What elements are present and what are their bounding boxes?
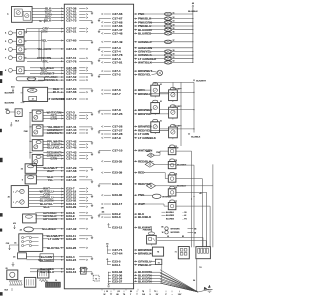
svg-text:→ PO: → PO [182,218,187,220]
svg-text:LT GRN/BLK: LT GRN/BLK [138,136,157,140]
svg-text:E23-35: E23-35 [112,159,122,163]
svg-text:→ 42: → 42 [182,214,186,217]
svg-text:1: 1 [13,202,14,204]
svg-text:E23-3: E23-3 [112,215,121,219]
svg-text:E23-30: E23-30 [112,193,122,197]
svg-text:58: 58 [194,232,196,234]
svg-text:C37-45: C37-45 [66,146,76,150]
svg-text:30: 30 [130,291,132,293]
svg-text:E23-17: E23-17 [112,202,122,206]
svg-text:BLU/BLK: BLU/BLK [138,215,152,219]
svg-text:WHT/GRN: WHT/GRN [38,258,52,262]
svg-text:C37-7: C37-7 [112,92,121,96]
svg-text:C37-21: C37-21 [66,30,76,34]
svg-text:BLK: BLK [44,205,51,209]
svg-text:C37-73: C37-73 [66,19,76,23]
svg-text:E23-39: E23-39 [112,171,122,175]
svg-text:E23-12: E23-12 [112,226,122,230]
svg-text:C37-2: C37-2 [112,73,121,77]
svg-text:C37-72: C37-72 [66,97,76,101]
svg-text:51: 51 [173,57,175,59]
svg-text:C37-76: C37-76 [66,59,76,63]
svg-text:BLU/BLK: BLU/BLK [188,11,198,13]
svg-text:BLK/WHT: BLK/WHT [5,93,15,95]
svg-text:→: → [171,294,173,296]
svg-text:YEL: YEL [47,178,53,182]
svg-text:52: 52 [173,61,175,63]
svg-text:61: 61 [160,84,162,86]
svg-text:BLU/RED: BLU/RED [166,218,175,220]
svg-text:BLK/ORN: BLK/ORN [5,103,15,105]
svg-text:WHT/RED: WHT/RED [162,196,171,198]
svg-text:BRN: BRN [51,117,58,121]
svg-text:C37-58: C37-58 [66,169,76,173]
svg-text:11: 11 [118,291,120,293]
svg-text:RED/YEL: RED/YEL [138,73,151,77]
svg-text:C37-74: C37-74 [66,78,76,82]
svg-text:D6: D6 [161,226,163,228]
svg-text:C38: C38 [6,243,9,245]
svg-text:BLU/RED: BLU/RED [138,31,152,35]
svg-text:71: 71 [154,291,156,293]
svg-text:GRN/WHT: GRN/WHT [47,131,61,135]
svg-text:WHT/RED: WHT/RED [171,232,180,234]
svg-text:C37-16: C37-16 [66,47,76,51]
svg-text:12: 12 [106,291,108,293]
svg-text:1: 1 [13,192,14,194]
svg-text:WHT/GRN: WHT/GRN [171,228,181,230]
svg-text:BLU/RED: BLU/RED [42,227,56,231]
svg-text:C37-64: C37-64 [112,252,122,256]
svg-text:27: 27 [50,268,52,270]
svg-text:C37-66: C37-66 [112,12,122,16]
svg-text:E23-20: E23-20 [66,237,76,241]
svg-text:BRN: BRN [51,157,58,161]
svg-text:G5: G5 [106,243,108,245]
svg-text:E23-37: E23-37 [112,279,122,283]
svg-text:61: 61 [160,120,162,122]
svg-text:59: 59 [173,53,175,55]
svg-text:ORN: ORN [41,30,48,34]
svg-text:C37-66: C37-66 [66,90,76,94]
svg-text:51: 51 [173,12,175,14]
svg-text:56: 56 [173,32,175,34]
svg-text:E23-26: E23-26 [66,246,76,250]
svg-text:C37: C37 [31,90,34,92]
svg-text:29: 29 [6,268,8,270]
svg-text:BLU: BLU [53,90,59,94]
svg-text:W: W [104,294,106,296]
svg-text:C37-81: C37-81 [112,60,122,64]
svg-text:52: 52 [173,17,175,19]
svg-text:LT GRN: LT GRN [48,237,59,241]
svg-text:BLK/YEL: BLK/YEL [47,246,60,250]
svg-text:73: 73 [158,262,160,264]
svg-text:BLU/BLK: BLU/BLK [166,212,175,214]
svg-text:57: 57 [173,40,175,42]
svg-text:28: 28 [167,236,169,238]
svg-text:61: 61 [160,101,162,103]
svg-text:BLU/BLK: BLU/BLK [191,137,201,139]
svg-text:E23-17: E23-17 [66,217,76,221]
svg-text:C37-17: C37-17 [66,117,76,121]
svg-text:WHT: WHT [47,169,54,173]
svg-text:53: 53 [173,21,175,23]
svg-text:C37-60: C37-60 [66,39,76,43]
svg-text:PNK/GRN: PNK/GRN [143,230,152,232]
svg-text:75: 75 [95,278,97,280]
svg-text:C37-36: C37-36 [66,178,76,182]
svg-text:E23-1: E23-1 [112,263,121,267]
svg-text:BLK: BLK [15,120,20,122]
svg-text:E23-16: E23-16 [66,270,76,274]
svg-text:WHT/GRN: WHT/GRN [138,149,152,153]
svg-text:E23-29: E23-29 [66,205,76,209]
svg-text:C37-48: C37-48 [112,31,122,35]
svg-text:BLU/RED: BLU/RED [166,215,175,217]
svg-text:WHT/BLU: WHT/BLU [40,270,54,274]
svg-text:BLU/YEL: BLU/YEL [47,146,60,150]
svg-text:BRN/YEL: BRN/YEL [138,112,151,116]
svg-text:54: 54 [173,23,175,26]
svg-text:E23-24: E23-24 [66,258,76,262]
svg-text:PNK/BLU: PNK/BLU [138,263,151,267]
svg-text:BLK: BLK [45,19,52,23]
svg-text:E23-40: E23-40 [112,182,122,186]
svg-text:RED/BLK: RED/BLK [44,78,58,82]
svg-text:C37-49: C37-49 [112,40,122,44]
svg-text:71: 71 [175,251,177,253]
svg-text:58: 58 [173,50,175,52]
svg-text:PNK: PNK [24,131,29,133]
svg-text:→ 1B: → 1B [182,212,187,214]
svg-text:73: 73 [142,291,144,293]
svg-text:C37-12: C37-12 [66,131,76,135]
svg-text:BLK/WHT: BLK/WHT [196,81,206,83]
svg-text:C37-32: C37-32 [66,227,76,231]
svg-text:BLK/ORN: BLK/ORN [138,279,152,283]
svg-text:GRY/GRN: GRY/GRN [43,217,57,221]
svg-text:C37-9: C37-9 [112,136,121,140]
svg-text:C37-10: C37-10 [112,149,122,153]
svg-text:12: 12 [32,99,34,101]
svg-text:C37-25: C37-25 [112,112,122,116]
svg-text:B5: B5 [182,236,184,238]
svg-text:PPL: PPL [43,59,49,63]
svg-text:C37-15: C37-15 [66,157,76,161]
svg-text:16: 16 [162,232,164,234]
svg-text:55: 55 [173,28,175,30]
